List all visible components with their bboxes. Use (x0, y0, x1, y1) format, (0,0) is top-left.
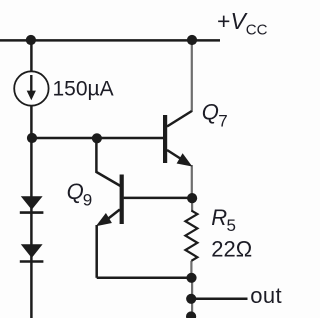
svg-text:R: R (211, 205, 227, 230)
svg-text:7: 7 (218, 112, 227, 131)
svg-text:out: out (250, 283, 282, 308)
svg-text:Q: Q (67, 179, 84, 204)
svg-text:+VCC: +VCC (217, 8, 268, 39)
svg-text:150µA: 150µA (53, 77, 114, 100)
svg-text:Q: Q (202, 99, 219, 124)
svg-text:5: 5 (227, 216, 236, 235)
svg-text:9: 9 (83, 191, 92, 210)
svg-text:22Ω: 22Ω (211, 236, 252, 261)
